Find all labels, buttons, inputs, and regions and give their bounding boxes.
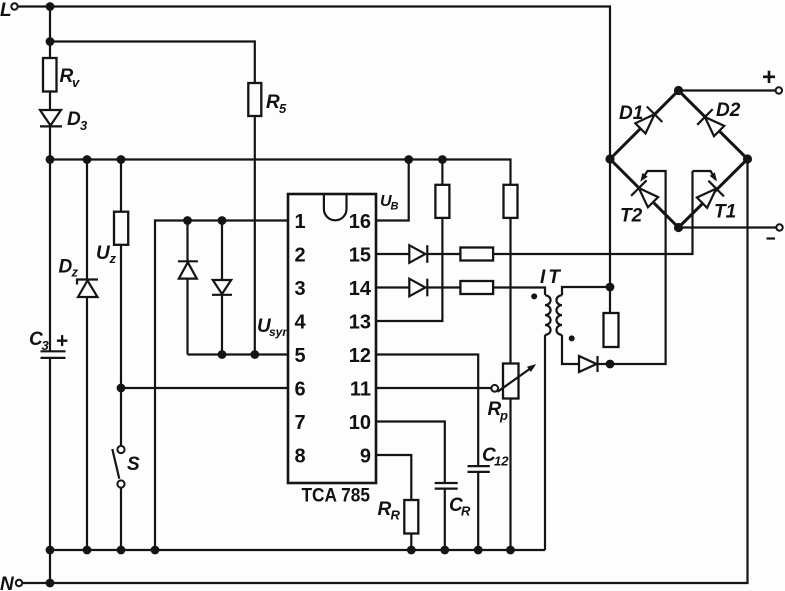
terminal - output [679, 224, 783, 238]
transformer IT secondary winding [540, 267, 575, 341]
svg-text:3: 3 [80, 118, 88, 133]
svg-text:D2: D2 [716, 100, 741, 121]
junction secondary bottom [606, 360, 615, 369]
switch S [112, 446, 140, 488]
svg-text:13: 13 [349, 311, 371, 333]
svg-text:1: 1 [295, 211, 306, 233]
wire main left vertical [49, 7, 51, 584]
wire primary bottom to ground bus [544, 335, 546, 550]
svg-text:R: R [391, 508, 401, 523]
resistor R2 ramp supply [504, 185, 518, 218]
svg-text:R: R [266, 92, 280, 113]
capacitor C3 [29, 329, 68, 358]
svg-text:D: D [67, 109, 81, 130]
wire bridge diamond [610, 91, 748, 228]
wire pin 16 to supply bus [376, 160, 409, 221]
junction RR ground [407, 546, 416, 555]
IC U1 TCA 785 body [288, 194, 376, 507]
wire main bus [50, 160, 511, 185]
junction bridge left vertex [605, 154, 614, 163]
zener diode Dz [59, 257, 99, 298]
junction Dz top [83, 155, 92, 164]
svg-text:L: L [0, 0, 12, 21]
junction Rp ground [506, 546, 515, 555]
svg-text:N: N [0, 574, 15, 591]
wire pin 14 line to transformer primary [376, 288, 545, 296]
svg-text:8: 8 [295, 445, 306, 467]
junction bridge top vertex [674, 86, 683, 95]
svg-text:z: z [71, 265, 79, 280]
wire pin 5 line [188, 353, 289, 355]
arrowhead T2 gate [640, 173, 647, 182]
junction switch ground [117, 546, 126, 555]
wire pin 10 to CR [376, 422, 445, 551]
svg-text:R: R [461, 504, 471, 519]
svg-text:D1: D1 [619, 103, 643, 124]
junction N line [46, 579, 55, 588]
junction D4 pin1 line [183, 216, 192, 225]
diode D4 sync clamp up [178, 261, 198, 278]
svg-text:5: 5 [295, 345, 306, 367]
svg-text:11: 11 [350, 378, 371, 400]
junction D5 pin1 line [218, 216, 227, 225]
svg-text:9: 9 [360, 445, 371, 467]
svg-text:2: 2 [295, 244, 306, 266]
resistor R3 gate T1 [460, 248, 493, 261]
arrowhead T1 gate [710, 172, 717, 181]
node Usyn [257, 316, 290, 339]
wire secondary top to node [562, 287, 610, 295]
junction bridge bottom vertex [674, 223, 683, 232]
wire L phase top bus to bridge left vertex [18, 7, 610, 314]
capacitor CR [435, 483, 471, 519]
svg-text:15: 15 [349, 244, 371, 266]
svg-text:p: p [499, 408, 508, 423]
svg-text:12: 12 [494, 454, 509, 469]
resistor Uz [96, 212, 128, 266]
wire secondary bottom loop [562, 335, 579, 364]
svg-text:R: R [378, 499, 392, 520]
junction ground bus left [46, 546, 55, 555]
svg-text:5: 5 [279, 101, 287, 116]
wire T2 gate line [610, 171, 666, 364]
capacitor C12 [468, 445, 510, 472]
wire diode D5 column [221, 221, 223, 355]
terminal L [0, 0, 18, 21]
wire Uz column [120, 160, 122, 551]
diode D8 secondary [579, 356, 598, 372]
resistor RR [378, 499, 419, 534]
svg-text:S: S [127, 454, 140, 475]
diode D5 sync clamp down [212, 280, 232, 295]
wire pin 9 to RR [376, 455, 411, 550]
wire R5 column down to pin 5 line [254, 116, 256, 355]
resistor R1 pin13 pull-up [435, 185, 449, 218]
junction main bus left [46, 155, 55, 164]
svg-text:14: 14 [349, 278, 372, 300]
thyristor T1 [697, 181, 736, 223]
junction L bus [46, 2, 55, 11]
wire pin 13 to R1 [376, 160, 442, 322]
terminal N [0, 574, 22, 591]
svg-text:syn: syn [269, 325, 290, 339]
svg-text:3: 3 [42, 338, 50, 353]
junction D5 pin5 line [218, 350, 227, 359]
resistor R4 pulse drive [460, 281, 493, 294]
diode D2 [697, 100, 741, 136]
wire Dz column [86, 160, 88, 551]
wire Rp bottom to ground bus [509, 399, 511, 551]
svg-text:T2: T2 [620, 206, 643, 227]
junction CR ground [440, 546, 449, 555]
svg-text:16: 16 [349, 211, 371, 233]
svg-text:D: D [59, 257, 73, 278]
resistor R5 [248, 83, 287, 116]
svg-text:7: 7 [295, 412, 306, 434]
svg-text:v: v [72, 75, 80, 90]
svg-text:10: 10 [349, 412, 371, 434]
potentiometer Rp [488, 364, 537, 424]
transformer IT primary winding [531, 293, 550, 334]
junction bridge right vertex [743, 154, 752, 163]
wire T1 gate line [693, 171, 716, 180]
diode D7 pin 14 output [409, 279, 427, 297]
svg-text:B: B [391, 201, 399, 213]
junction secondary top [606, 283, 615, 292]
wire diode D4 column [186, 221, 188, 355]
wire bottom ground bus [50, 549, 545, 551]
wire N line to bridge right vertex [22, 159, 747, 583]
junction R5 branch [46, 37, 55, 46]
wire pin 1 line [155, 221, 288, 551]
junction pin6 switch column [117, 384, 126, 393]
junction Dz ground [83, 546, 92, 555]
terminal + output [679, 64, 783, 94]
wire pin 15 line to T1 gate [376, 171, 693, 254]
svg-text:T1: T1 [714, 202, 736, 223]
svg-text:3: 3 [295, 278, 306, 300]
svg-text:4: 4 [295, 311, 307, 333]
junction C12 ground [474, 546, 483, 555]
junction sync ground [151, 546, 160, 555]
resistor R6 secondary load [604, 313, 619, 347]
wire branch to R5 [50, 42, 255, 84]
svg-text:TCA 785: TCA 785 [302, 486, 371, 507]
svg-text:z: z [109, 251, 117, 266]
junction UB bus [404, 155, 413, 164]
svg-text:6: 6 [295, 378, 306, 400]
wire pin 12 to C12 [376, 355, 478, 551]
thyristor T2 [620, 180, 658, 226]
wire diode D8 to node [598, 363, 611, 365]
wire R2 to Rp [509, 218, 511, 364]
diode D1 [619, 103, 662, 134]
node UB [380, 193, 399, 213]
resistor Rv [43, 58, 80, 92]
wire pin 11 to Rp wiper [376, 387, 491, 389]
svg-text:12: 12 [349, 345, 371, 367]
junction R1 top [438, 155, 447, 164]
svg-text:+: + [56, 330, 68, 353]
svg-text:+: + [762, 64, 776, 91]
diode D6 pin 15 output [409, 245, 427, 263]
junction Uz top [117, 155, 126, 164]
svg-text:IT: IT [540, 267, 563, 288]
wire pin 6 line [121, 387, 288, 389]
junction R5 pin5 line [250, 350, 259, 359]
diode D3 [40, 109, 88, 133]
